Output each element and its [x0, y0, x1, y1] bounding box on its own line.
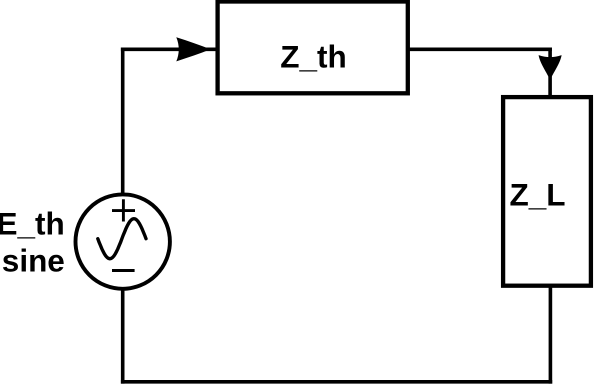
wire: right vertical drop from corner into Z_L top pin: [548, 48, 552, 96]
svg-text:E_th: E_th: [0, 206, 65, 242]
wire: Z_L bottom pin down to bottom rail: [549, 287, 553, 383]
impedance box Z_th: [218, 2, 408, 94]
wire: source top terminal up to top rail corner: [121, 48, 125, 194]
wire: bottom return rail: [121, 380, 552, 384]
svg-text:sine: sine: [2, 243, 65, 279]
current arrow into Z_L (pointing down): [539, 55, 562, 80]
svg-text:Z_th: Z_th: [280, 39, 347, 75]
wire: top rail right segment from Z_th right pin to corner: [410, 47, 552, 51]
svg-text:Z_L: Z_L: [510, 177, 566, 213]
current arrow into Z_th (pointing right): [176, 37, 210, 61]
sine waveform glyph inside source: [98, 219, 146, 259]
wire: source bottom terminal down to bottom rail corner: [121, 290, 125, 384]
wire: top rail left segment into Z_th left pin: [121, 47, 216, 51]
minus polarity mark inside source: [112, 269, 135, 272]
impedance box Z_L (load): [503, 97, 591, 286]
AC voltage source E_th: circle body: [76, 194, 170, 288]
plus polarity mark inside source: [112, 199, 135, 221]
